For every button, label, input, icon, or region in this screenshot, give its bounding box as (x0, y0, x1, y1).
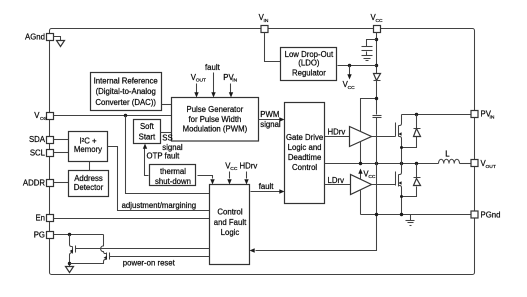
svg-text:Modulation (PWM): Modulation (PWM) (183, 125, 248, 134)
junction PG/Q1 drain (68, 233, 71, 236)
svg-text:fault: fault (205, 63, 221, 72)
wire V_OS sense to control logic (126, 116, 210, 194)
ground AGnd (open triangle) (57, 41, 65, 47)
svg-text:IN: IN (232, 77, 237, 83)
wire LDO output to V_CC rail (338, 65, 377, 67)
node fault input arrow to PWM generator (205, 63, 221, 98)
pin PG (34, 230, 54, 239)
transistor Q2 power-good FET (104, 253, 110, 264)
block U10 Gate Drive Logic and Deadtime Control (285, 103, 325, 204)
svg-text:CC: CC (368, 174, 376, 180)
svg-text:PWM: PWM (260, 110, 279, 119)
pin ADDR (23, 178, 54, 187)
capacitor C1 V_CC decoupling (362, 47, 373, 56)
block U6 thermal shut-down (150, 165, 196, 186)
wire HDrv driver return to SW (360, 142, 362, 164)
svg-text:En: En (35, 213, 45, 222)
wire V_CC to decoupling capacitor (367, 40, 377, 47)
wire V_OS to PWM generator (54, 115, 172, 117)
svg-text:Logic and: Logic and (288, 143, 322, 152)
wire bootstrap diode to capacitor (376, 81, 378, 115)
diode D1 bootstrap (374, 74, 381, 81)
svg-text:signal: signal (162, 143, 183, 152)
svg-text:SS: SS (162, 134, 172, 143)
svg-text:shut-down: shut-down (155, 177, 191, 186)
wire HDrv gate drive to driver (325, 128, 350, 137)
svg-text:for Pulse Width: for Pulse Width (188, 115, 241, 124)
svg-text:and Fault: and Fault (214, 218, 247, 227)
svg-text:SCL: SCL (30, 148, 46, 157)
wire AGnd to analog ground (54, 37, 61, 41)
wire V_CC pin down the bootstrap branch (376, 33, 378, 74)
IC outer boundary (50, 29, 475, 275)
svg-text:LDrv: LDrv (328, 176, 345, 185)
junction PGnd/bootstrap column (375, 213, 378, 216)
wire V_IN to LDO (265, 33, 281, 62)
ground earth below C1 (362, 56, 373, 61)
svg-text:Memory: Memory (74, 145, 102, 154)
svg-text:CC: CC (376, 18, 384, 24)
ground triangle power-good (66, 267, 74, 273)
svg-text:Converter (DAC)): Converter (DAC)) (95, 98, 156, 107)
node V_cc supply arrow of LDrv driver (358, 169, 376, 180)
transistor Q4 low-side FET (396, 164, 402, 215)
junction SW/FET midpoint (400, 162, 403, 165)
wire PWM signal from PWM generator to gate drive (arrow right) (259, 110, 285, 129)
block U7 I2C + Memory (69, 132, 108, 162)
junction V_CC/LDO output (375, 64, 378, 67)
svg-text:(Digital-to-Analog: (Digital-to-Analog (96, 87, 156, 96)
junction V_CC/decoupling cap (375, 38, 378, 41)
svg-text:power-on reset: power-on reset (123, 259, 176, 268)
svg-text:Gate Drive: Gate Drive (286, 133, 323, 142)
svg-text:signal: signal (260, 120, 281, 129)
wire En to control logic (54, 218, 210, 220)
svg-text:Control: Control (292, 163, 317, 172)
transistor Q1 power-good FET (70, 235, 76, 264)
svg-text:adjustment/margining: adjustment/margining (122, 201, 197, 210)
junction SW/bootstrap (375, 162, 378, 165)
pin PV_IN (471, 110, 495, 121)
svg-text:Start: Start (139, 133, 156, 142)
wire adjustment/margining I2C to control logic (108, 147, 210, 211)
node HDrv input arrow to control logic (240, 161, 258, 184)
svg-text:Regulator: Regulator (292, 68, 326, 77)
svg-text:Pulse Generator: Pulse Generator (187, 105, 244, 114)
wire I2C to Address Detector (89, 162, 91, 171)
svg-text:(LDO): (LDO) (298, 58, 320, 67)
junction PV_IN/body diode (415, 113, 418, 116)
svg-text:OS: OS (40, 116, 48, 122)
block U3 Pulse Generator (PWM) (172, 98, 259, 142)
wire PG corner down to Q2 drain (with hop) (101, 235, 104, 253)
wire Q1 source to ground (69, 264, 71, 267)
svg-text:OUT: OUT (196, 77, 206, 83)
svg-text:OTP fault: OTP fault (147, 152, 181, 161)
svg-text:L: L (445, 150, 450, 159)
pin PGnd (471, 210, 500, 219)
wire fault from control logic to gate drive (arrow right) (251, 182, 285, 194)
pin SDA (29, 135, 54, 144)
junction bootstrap/HDrv supply (375, 97, 378, 100)
svg-text:Address: Address (74, 174, 103, 183)
wire HDrv driver output to high-side gate (372, 136, 396, 138)
wire PG to transistor drains (54, 234, 104, 236)
svg-text:SDA: SDA (29, 135, 46, 144)
op-amp driver A1 HDrv (350, 127, 372, 147)
junction Q1 source (68, 262, 71, 265)
svg-text:Logic: Logic (221, 228, 240, 237)
junction PGnd/low-side source (400, 213, 403, 216)
wire power ground rail to PGnd pin (361, 214, 471, 216)
node V_cc input arrow to control logic (225, 161, 238, 184)
diode D3 low-side body diode (402, 164, 421, 197)
wire DAC output to PWM generator (162, 104, 172, 106)
svg-text:PG: PG (34, 230, 45, 239)
wire power-on reset from control logic to Q2 gate (110, 256, 210, 258)
junction SW/HDrv return (359, 162, 362, 165)
svg-text:HDrv: HDrv (328, 128, 346, 137)
svg-text:Deadtime: Deadtime (288, 153, 321, 162)
svg-text:Control: Control (217, 207, 242, 216)
svg-text:ADDR: ADDR (23, 178, 45, 187)
wire SDA (54, 139, 69, 141)
pin AGnd (25, 32, 53, 41)
block U8 Address Detector (69, 171, 109, 197)
wire SCL (54, 152, 69, 154)
block U2 Internal Reference (DAC) (91, 73, 162, 111)
svg-text:thermal: thermal (160, 167, 186, 176)
wire Q1 source to Q2 source (70, 262, 104, 264)
wire PV_IN pin to high-side drain (402, 114, 471, 116)
svg-text:Internal Reference: Internal Reference (94, 76, 158, 85)
svg-text:Detector: Detector (74, 183, 104, 192)
svg-text:HDrv: HDrv (240, 161, 258, 170)
wire LDrv driver output to low-side gate (372, 184, 396, 186)
diode D2 high-side body diode (402, 115, 421, 148)
junction LDO output V_cc tap (348, 64, 351, 67)
transistor Q3 high-side FET (396, 115, 402, 164)
wire bootstrap capacitor to SW (376, 118, 378, 164)
pin SCL (30, 148, 54, 157)
wire Q1 gate to control logic (76, 248, 210, 250)
wire ADDR (54, 182, 69, 184)
svg-text:Soft: Soft (140, 122, 155, 131)
pin V_OUT (471, 159, 496, 170)
node PV_IN input arrow to PWM generator (223, 73, 237, 98)
wire LDrv gate drive to driver (325, 176, 351, 185)
wire SS signal to PWM generator (161, 132, 172, 134)
junction high-side source/diode (400, 146, 403, 149)
svg-text:I²C +: I²C + (79, 137, 97, 146)
inductor L (439, 150, 460, 164)
label SS signal (162, 134, 183, 152)
pin En (35, 213, 53, 222)
wire inductor to V_OUT pin (460, 163, 471, 165)
junction V_OS/adjust (124, 114, 127, 117)
svg-text:IN: IN (264, 18, 269, 24)
node V_OUT input arrow to PWM generator (191, 73, 206, 98)
pin V_OS (34, 111, 53, 122)
pin V_CC (371, 13, 384, 32)
block U4 LDO Regulator (281, 48, 337, 81)
wire SW node gate drive to inductor (325, 163, 439, 165)
svg-text:fault: fault (259, 182, 275, 191)
svg-text:PGnd: PGnd (481, 210, 501, 219)
wire thermal shutdown to Soft Start (arrow up) (143, 144, 149, 176)
block U9 Control and Fault Logic (210, 185, 250, 265)
capacitor C2 bootstrap (373, 116, 382, 118)
pin V_IN (259, 13, 269, 32)
svg-text:CC: CC (230, 166, 238, 172)
node V_cc tap arrow down (343, 66, 356, 91)
wire thermal shutdown to control logic (arrow down) (198, 176, 215, 185)
wire HDrv driver bootstrap supply (361, 99, 377, 132)
wire LDrv driver return to power ground (360, 190, 362, 215)
block U5 Soft Start (134, 120, 161, 144)
svg-text:AGnd: AGnd (25, 32, 45, 41)
junction SW/low-side body diode (415, 162, 418, 165)
svg-text:IN: IN (490, 114, 495, 120)
wire PGnd sense to control logic (arrow left) (250, 215, 377, 253)
svg-text:OUT: OUT (486, 164, 496, 170)
junction low-side source/diode (400, 195, 403, 198)
op-amp driver A2 LDrv (351, 175, 372, 195)
svg-text:CC: CC (348, 85, 356, 91)
ground earth power ground (406, 215, 415, 226)
wire SW to PGnd sense column (376, 164, 378, 215)
